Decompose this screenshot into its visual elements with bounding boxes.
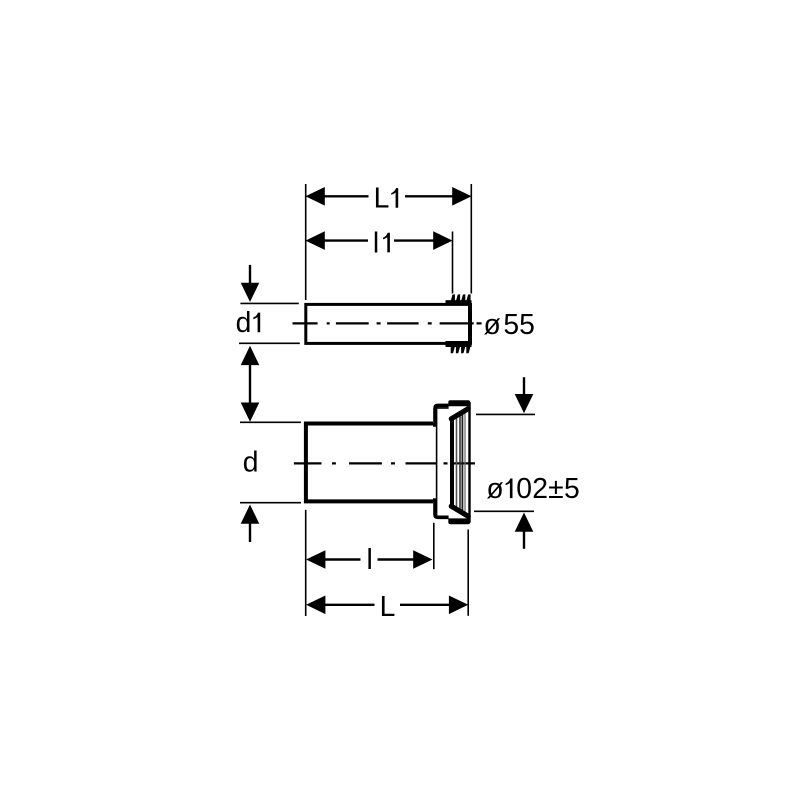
- tube 1 thread teeth top: [451, 294, 471, 302]
- flange lip top: [448, 400, 470, 406]
- dimension d1 top arrow: [249, 265, 251, 284]
- tube 1 right end face: [468, 303, 472, 345]
- svg-text:L: L: [380, 590, 396, 622]
- diameter 102 bottom extension line: [474, 510, 534, 512]
- extension line right l1: [452, 232, 454, 294]
- flange inner skirt top line: [437, 407, 449, 409]
- flange skirt bottom-left corner: [433, 500, 449, 517]
- centerline tube 1: [293, 322, 482, 324]
- flange white fill: [434, 405, 470, 519]
- diameter 102 top arrow: [523, 377, 525, 396]
- d1 bottom arrow / d top arrow assembly: [241, 346, 260, 365]
- d1 top extension line: [240, 302, 298, 304]
- dimension l line: [324, 558, 416, 560]
- extension line right L1: [470, 184, 472, 294]
- diameter 102 top extension line: [476, 413, 535, 415]
- dimension L left arrowhead: [306, 596, 325, 615]
- flange skirt top-left corner: [433, 405, 449, 425]
- flange right edge: [468, 402, 470, 523]
- tube 1 body: [306, 304, 470, 343]
- dimension l1 right arrowhead: [433, 231, 452, 250]
- d bottom extension line: [240, 502, 301, 504]
- gasket top chamfer: [451, 409, 468, 419]
- d bottom arrow: [241, 505, 260, 524]
- gasket ridge lines: [457, 412, 466, 514]
- svg-text:ø: ø: [486, 472, 503, 504]
- svg-text:ø: ø: [484, 308, 501, 340]
- tube 1 thread teeth bottom: [451, 346, 471, 354]
- flange seam line: [436, 407, 438, 517]
- dimension l right arrowhead: [413, 550, 432, 569]
- d top extension line: [240, 421, 301, 423]
- gasket left thick line: [450, 417, 454, 509]
- svg-text:02±5: 02±5: [516, 472, 580, 504]
- svg-text:l: l: [373, 226, 379, 258]
- extension line left bottom figure: [305, 510, 307, 616]
- dimension l left arrowhead: [306, 550, 325, 569]
- svg-text:L: L: [374, 182, 390, 214]
- svg-text:55: 55: [503, 308, 534, 340]
- dimension l1 left arrowhead: [306, 231, 325, 250]
- tube 1 thread root bar top: [446, 300, 472, 305]
- d1 bottom extension line: [239, 342, 300, 344]
- gasket bottom chamfer: [451, 506, 468, 516]
- svg-text:d: d: [236, 306, 252, 338]
- extension line left of tube 1: [305, 184, 307, 300]
- diameter 102 bottom arrow: [515, 513, 534, 532]
- dimension L1 left arrowhead: [306, 187, 325, 206]
- dimension l1 line: [324, 239, 435, 241]
- extension line right l: [433, 523, 435, 569]
- svg-text:l: l: [367, 543, 373, 575]
- dimension L1 line: [324, 195, 454, 197]
- tube 2 body: [306, 424, 433, 502]
- svg-text:d: d: [243, 445, 259, 477]
- extension line right L: [467, 530, 469, 616]
- dimension L line: [324, 604, 450, 606]
- dimension L1 right arrowhead: [452, 187, 471, 206]
- centerline tube 2: [294, 462, 475, 464]
- flange lip bottom: [448, 518, 470, 524]
- tube 1 thread root bar bottom: [446, 341, 472, 347]
- dimension L right arrowhead: [449, 596, 468, 615]
